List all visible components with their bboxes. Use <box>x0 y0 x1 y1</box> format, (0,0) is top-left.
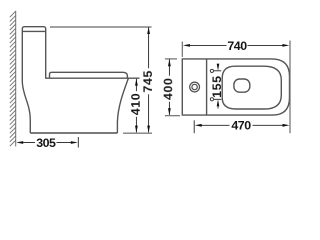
outer outline <box>182 59 289 115</box>
svg-text:155: 155 <box>210 75 224 97</box>
dimension 400 <box>165 58 177 60</box>
dimension 305 <box>23 142 72 144</box>
bowl rim line <box>46 77 140 79</box>
base back profile <box>22 82 30 133</box>
seat outline <box>222 66 281 109</box>
svg-text:410: 410 <box>129 93 143 115</box>
svg-text:470: 470 <box>231 119 251 133</box>
seat bolt hole top <box>210 69 213 72</box>
svg-text:305: 305 <box>36 136 56 150</box>
tank lid line <box>23 30 45 32</box>
seat lid (side view) <box>50 72 128 78</box>
dimension 740 <box>181 42 183 58</box>
svg-text:400: 400 <box>161 78 175 100</box>
seat bolt hole bottom <box>210 98 213 101</box>
dimension 470 <box>193 120 195 133</box>
extension tick 305 right <box>77 137 79 148</box>
flush button inner <box>192 84 197 89</box>
bowl front profile <box>117 78 128 133</box>
extension line tank top <box>50 26 152 28</box>
floor line <box>30 132 117 134</box>
dimension 155 <box>214 70 221 72</box>
wall hatching <box>10 11 16 146</box>
extension line floor right <box>123 132 152 134</box>
water spot <box>234 79 250 92</box>
dimension 410 line <box>135 79 137 133</box>
svg-text:745: 745 <box>141 70 155 92</box>
tank (side view) <box>22 27 45 82</box>
svg-text:740: 740 <box>227 39 247 53</box>
dimension 745 line <box>148 27 150 132</box>
wall line <box>15 11 17 147</box>
flush button outer <box>190 82 200 92</box>
tank divider <box>206 59 208 115</box>
